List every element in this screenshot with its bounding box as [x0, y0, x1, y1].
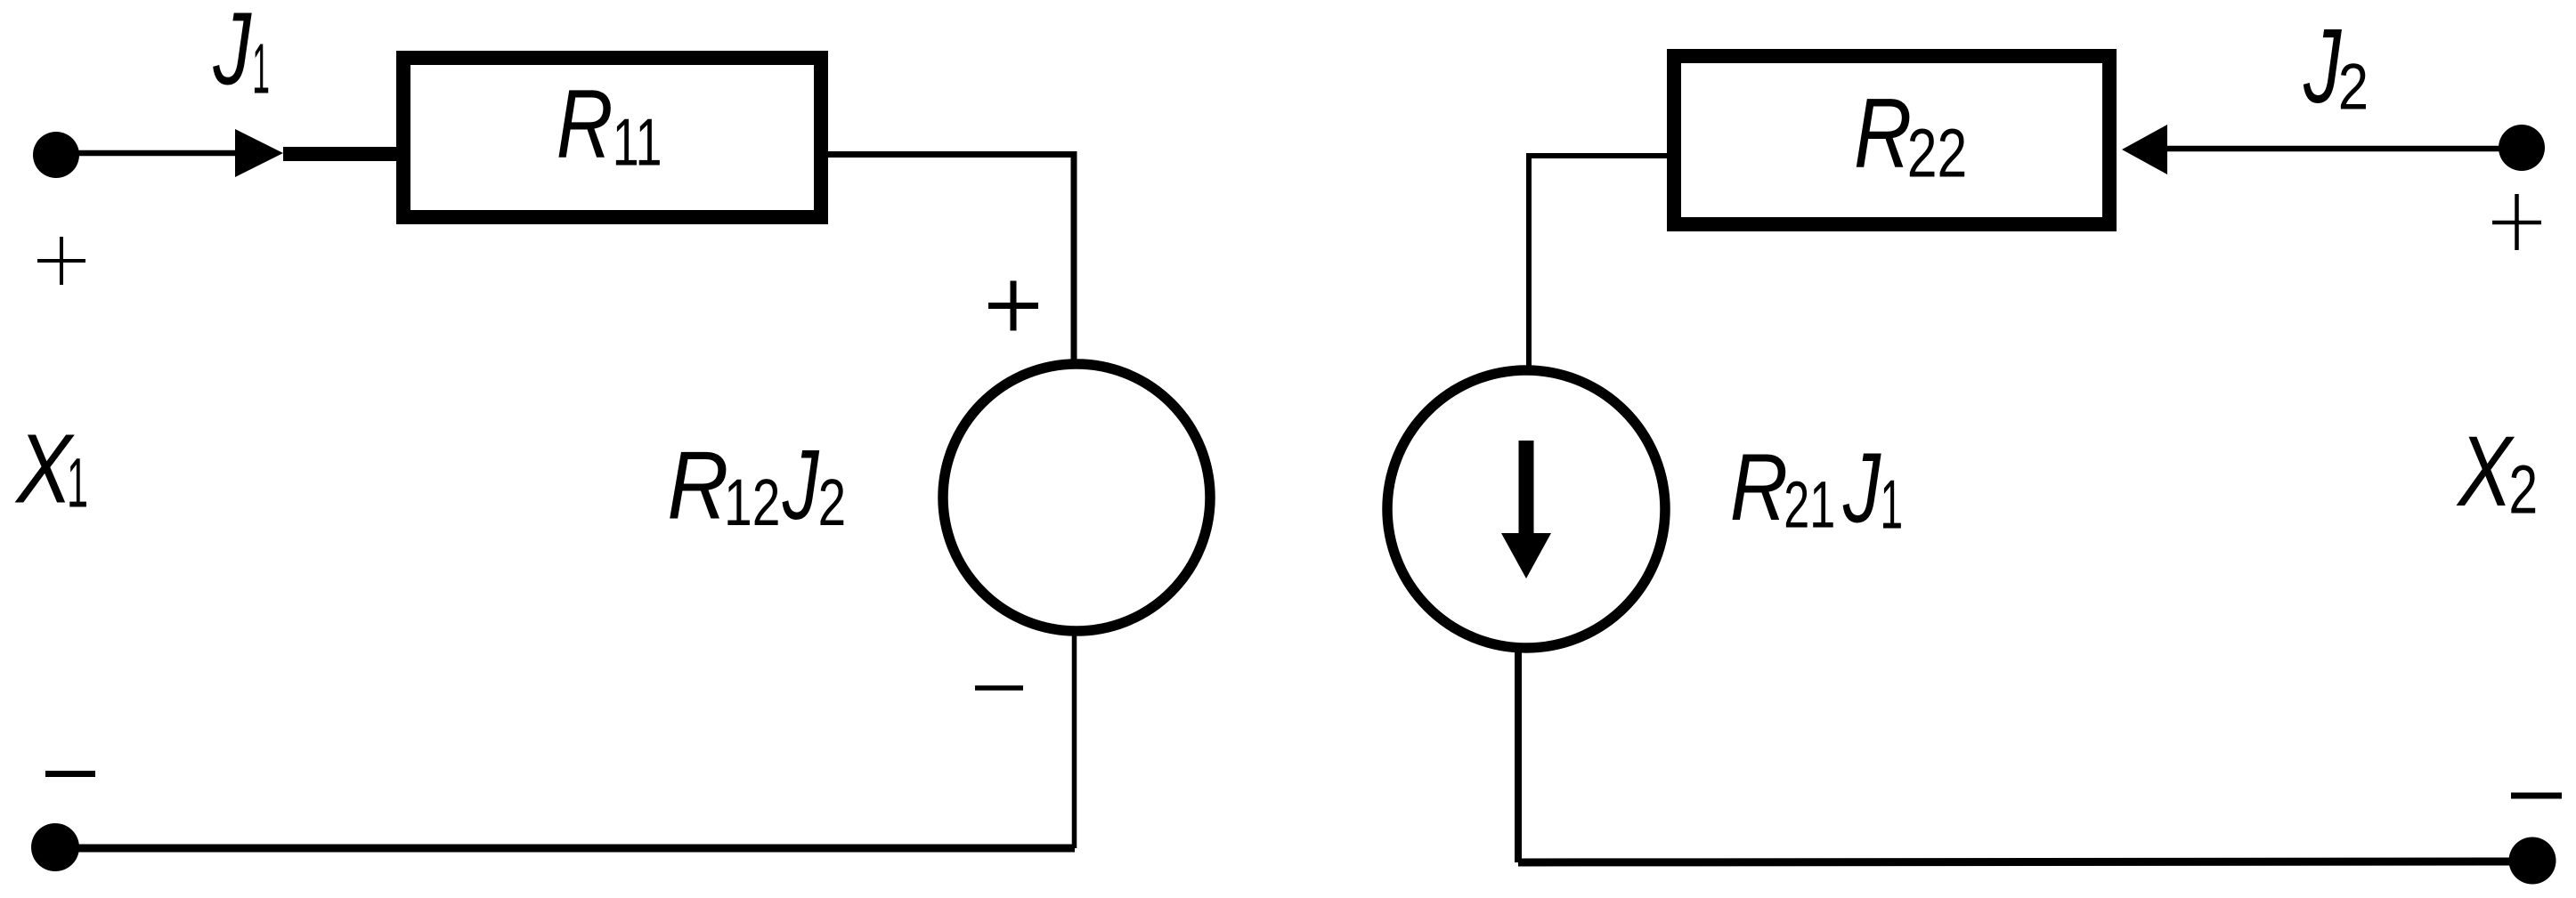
svg-text:R: R [1854, 78, 1912, 189]
wire voltage source to bottom rail [1072, 628, 1077, 848]
svg-text:J: J [782, 430, 820, 540]
arrowhead J2 [2122, 125, 2167, 174]
wire current source to bottom rail [1515, 648, 1522, 862]
resistor R11 [403, 58, 821, 217]
svg-text:11: 11 [613, 104, 662, 179]
wire R11 to voltage source [828, 155, 1074, 368]
arrow inside current source [1519, 441, 1534, 534]
arrowhead J1 [235, 129, 283, 177]
node port2 minus terminal dot [2509, 837, 2556, 885]
svg-text:R: R [667, 431, 728, 539]
svg-text:2: 2 [818, 465, 847, 539]
node port2 plus terminal dot [2499, 125, 2545, 171]
minus sign port1 [45, 771, 95, 777]
wire J2 current lead [2166, 146, 2522, 152]
svg-text:1: 1 [252, 29, 270, 109]
voltage source circle R12J2 [943, 364, 1210, 631]
svg-text:22: 22 [1907, 115, 1967, 192]
svg-text:21: 21 [1784, 467, 1835, 541]
svg-text:R: R [557, 70, 614, 179]
svg-text:12: 12 [724, 466, 780, 540]
thick lead into R11 [283, 147, 398, 161]
plus sign port2 [2492, 194, 2541, 250]
svg-text:2: 2 [2338, 52, 2369, 124]
minus sign below voltage source [975, 685, 1023, 691]
svg-text:2: 2 [2508, 451, 2538, 528]
svg-text:J: J [2303, 7, 2342, 125]
resistor R22 [1674, 56, 2109, 224]
svg-text:X: X [2457, 415, 2515, 527]
minus sign port2 [2511, 793, 2562, 799]
svg-text:J: J [1842, 433, 1881, 543]
bottom rail port2 [1518, 862, 2532, 862]
svg-text:R: R [1730, 433, 1788, 540]
node port1 plus terminal dot [33, 132, 79, 178]
current source circle R21J1 [1387, 370, 1665, 648]
plus sign above voltage source [988, 281, 1038, 331]
wire R22 to current source [1529, 156, 1667, 374]
svg-text:1: 1 [1881, 465, 1904, 544]
svg-text:1: 1 [67, 444, 88, 522]
plus sign port1 [37, 237, 85, 285]
wire J1 current lead [56, 150, 237, 157]
svg-text:X: X [15, 414, 76, 524]
bottom rail port1 [55, 845, 1075, 853]
node port1 minus terminal dot [31, 823, 79, 871]
svg-text:J: J [213, 0, 252, 106]
